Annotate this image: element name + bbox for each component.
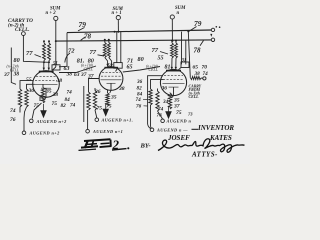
tube V2 plate — [104, 67, 118, 69]
svg-text:75: 75 — [97, 106, 103, 112]
label 79 right — [194, 19, 202, 28]
label 55 cell3 — [158, 56, 164, 62]
label 36 cell1 — [28, 88, 35, 94]
wire bus 79 — [67, 30, 211, 33]
svg-text:ATTYS-: ATTYS- — [191, 151, 218, 159]
wire leader 77 cell3 — [160, 52, 168, 55]
figure label FIG.2 — [79, 139, 112, 150]
svg-text:74: 74 — [67, 90, 73, 96]
terminal carry-to — [22, 32, 26, 36]
wire leader 79 left — [78, 28, 85, 31]
label CARRY FROM right — [189, 84, 202, 99]
wire carry cell2-3 — [123, 67, 160, 73]
wire bus79 drops cell2 — [116, 32, 118, 63]
svg-text:n + 2: n + 2 — [46, 11, 57, 16]
svg-text:79: 79 — [79, 20, 87, 29]
wire rowB left up — [23, 118, 25, 131]
wire tube V3 grid exit B — [151, 80, 164, 89]
svg-text:75: 75 — [34, 103, 40, 109]
svg-text:76: 76 — [136, 104, 142, 110]
tube V3 screen — [163, 82, 185, 84]
resistor 75 cell1 b — [41, 88, 44, 104]
resistor cell3 b — [156, 91, 159, 111]
resistor cell3 a — [149, 89, 152, 105]
svg-text:78: 78 — [84, 32, 92, 40]
resistor 77 cell2 — [103, 43, 106, 58]
wire bus 78 — [56, 40, 212, 41]
tube V1 plate lead arrows — [43, 68, 50, 71]
wire rowA3 up — [158, 111, 163, 119]
signature Smart Biggar — [158, 139, 245, 153]
label 35 cell2 — [110, 95, 117, 101]
svg-text:AUGEND n+2: AUGEND n+2 — [36, 119, 68, 124]
arrow ground cell3 — [165, 111, 172, 119]
resistor 77 cell3 — [171, 43, 174, 58]
crystal box 31 cell3 — [181, 62, 189, 68]
label 84 cell2 — [65, 97, 71, 103]
svg-text:82: 82 — [61, 103, 67, 109]
svg-text:79: 79 — [194, 19, 202, 28]
svg-text:36: 36 — [28, 88, 35, 94]
node CARRY TO (n-2)th CELL label — [8, 18, 33, 33]
node SUM n+1 label — [175, 6, 186, 16]
svg-text:JOSEF: JOSEF — [167, 134, 190, 142]
svg-text:AUGEND n+2: AUGEND n+2 — [29, 131, 61, 136]
wire bus 79 left drop — [66, 33, 68, 67]
wire carry-to down — [23, 36, 48, 63]
wire tube V1 bottom leads — [39, 97, 41, 102]
svg-text:76: 76 — [10, 117, 16, 123]
svg-text:36: 36 — [136, 79, 143, 85]
svg-text:n: n — [177, 11, 180, 16]
label 65 cell3 — [127, 64, 133, 70]
crystal box cell2 — [114, 63, 122, 69]
tube V1 screen — [35, 83, 58, 85]
svg-text:38: 38 — [66, 72, 73, 78]
svg-text:78: 78 — [194, 47, 202, 55]
svg-text:65: 65 — [127, 64, 133, 70]
svg-text:AUGEND n+1.: AUGEND n+1. — [101, 118, 134, 123]
label 80 cell3 — [138, 56, 144, 63]
label 72 — [68, 48, 75, 55]
svg-text:n + 1: n + 1 — [112, 11, 122, 16]
wire mid extra vertical — [83, 86, 85, 122]
wire tube V1 grid exit A — [20, 81, 34, 89]
svg-text:37: 37 — [173, 103, 180, 109]
label 79 left — [79, 20, 87, 29]
tube V2 grid2 — [101, 75, 121, 77]
wire plate leads cell1 — [43, 62, 45, 68]
svg-text:74: 74 — [70, 103, 76, 109]
label 80 cell1 — [14, 57, 20, 64]
svg-text:77: 77 — [26, 50, 33, 57]
label 77 cell3 — [152, 47, 159, 54]
svg-text:74: 74 — [136, 97, 142, 103]
svg-text:63: 63 — [74, 72, 80, 78]
label 75 cell3 — [176, 110, 182, 116]
tube V1 plate — [39, 71, 54, 73]
svg-text:77: 77 — [152, 47, 159, 54]
label 65 70 right — [193, 64, 208, 70]
wire rowB3 up — [148, 79, 152, 128]
wire bus79 drop cell3 — [181, 32, 183, 65]
resistor 70 horizontal — [191, 76, 202, 79]
wire carry cell1-2 — [59, 66, 96, 73]
terminal augend A3 — [161, 119, 165, 123]
wire tube V2 bottom leads — [94, 88, 96, 91]
label 75 cell1 a — [34, 103, 40, 109]
svg-text:CELL: CELL — [84, 67, 93, 71]
resistor 75 cell1 a — [25, 89, 28, 107]
label 51 cell2 — [107, 62, 113, 68]
svg-text:80: 80 — [14, 57, 20, 64]
svg-text:74: 74 — [203, 71, 209, 77]
label 38 cell2 — [118, 86, 125, 92]
svg-text:38: 38 — [118, 86, 125, 92]
label 37 cell2 — [87, 74, 94, 80]
label 75 cell1 b — [52, 101, 58, 107]
label 76 cell2 right — [157, 113, 163, 119]
svg-text:75: 75 — [52, 101, 58, 107]
wire leader 79 right — [189, 27, 197, 32]
continuation dots — [216, 26, 221, 28]
terminal augend A1 — [30, 119, 34, 123]
label column cell3 — [136, 79, 148, 110]
svg-text:74: 74 — [10, 108, 16, 114]
svg-text:51: 51 — [53, 61, 58, 66]
terminal augend B2 — [86, 129, 90, 133]
svg-text:55: 55 — [158, 56, 164, 62]
label 38 63 37 row — [66, 72, 87, 79]
svg-text:36: 36 — [161, 86, 168, 92]
tube V2 plate lead arrows — [106, 64, 112, 67]
wire leader 77 cell2 — [98, 55, 105, 56]
label 63 cell2 — [64, 66, 70, 72]
resistor cell2 b — [93, 91, 96, 111]
label 36 cell3 mid — [161, 86, 168, 92]
svg-text:38: 38 — [194, 71, 201, 77]
svg-text:70: 70 — [202, 64, 208, 70]
svg-text:CELL: CELL — [149, 68, 158, 72]
tube V1 envelope — [33, 71, 60, 98]
node SUM n+1 mid label — [112, 7, 124, 16]
wire sum n+1 mid down — [117, 20, 119, 32]
svg-text:CELL: CELL — [189, 95, 200, 99]
resistor pair cell1 b — [48, 43, 51, 61]
terminal sum n+2 — [54, 16, 58, 20]
label 76 cell1 — [10, 117, 16, 123]
terminal bus78 right — [211, 38, 214, 41]
label 35 cell1 — [45, 89, 52, 95]
svg-text:75: 75 — [106, 104, 112, 110]
resistor 74 cell1 — [18, 89, 21, 107]
label 74 cell2 left — [67, 90, 73, 96]
terminal augend B3 — [150, 128, 154, 132]
label 35 cell3 — [173, 98, 180, 104]
wire inventor dash — [192, 128, 199, 130]
tube V3 plate — [166, 70, 181, 72]
tube V1 cathode — [41, 87, 51, 89]
wire leader 78 right — [200, 41, 204, 46]
wire rowA2 up — [95, 110, 97, 118]
svg-text:INVENTOR: INVENTOR — [197, 124, 234, 132]
label 55 left — [26, 77, 32, 83]
wire bus78 drop cell3 — [185, 40, 187, 64]
terminal bias right — [203, 77, 206, 80]
terminal sum n+1 mid — [116, 16, 120, 20]
wire left edge vertical — [11, 48, 16, 85]
svg-text:35: 35 — [110, 95, 117, 101]
crystal box 51 cell1 — [52, 65, 60, 70]
resistor cell3 c — [168, 93, 171, 109]
label 37 left low — [3, 72, 19, 78]
resistor 77 cell1 — [43, 43, 46, 61]
node SUM n+2 label — [46, 7, 62, 16]
label 38 cell1 b — [56, 78, 63, 84]
svg-text:AUGEND n+1: AUGEND n+1 — [92, 129, 123, 134]
label 78 right — [194, 47, 202, 55]
svg-text:AUGEND n: AUGEND n — [166, 119, 192, 124]
tube V2 envelope — [99, 67, 123, 91]
arrow ground cell2 — [102, 109, 109, 117]
tube V1 grid1 — [36, 76, 56, 78]
svg-text:35: 35 — [45, 89, 52, 95]
label 78 left — [84, 32, 92, 40]
wire leader 72 — [65, 53, 70, 63]
tube V2 cathode — [107, 82, 116, 84]
label (n+1)th CELL right — [146, 65, 158, 73]
junction dots carry wire cell1 — [43, 61, 50, 63]
label 75 75 cell2 — [97, 104, 112, 112]
wire bus79drop to box cell1 — [59, 65, 67, 68]
svg-text:80: 80 — [138, 56, 144, 63]
resistor 80 cell3 — [175, 43, 178, 58]
tube V2 grid1 — [102, 72, 120, 74]
label 73 right edge — [188, 112, 193, 117]
tube V3 grid2 — [163, 79, 184, 81]
svg-text:37: 37 — [3, 72, 10, 78]
arrow small between buses — [210, 34, 212, 37]
svg-text:AUGEND n —: AUGEND n — — [156, 128, 188, 133]
label 34 cell3 — [162, 99, 169, 105]
junction dots buses — [43, 30, 189, 42]
label (n+1)th CELL mid — [81, 64, 93, 72]
terminal bus79 right — [211, 28, 214, 31]
svg-text:38: 38 — [13, 72, 20, 78]
tube V1 grid2 — [35, 80, 57, 82]
label 71 cell3 — [127, 58, 133, 65]
wire leader 78 left — [81, 37, 85, 40]
label 77 cell2 — [90, 49, 97, 56]
wire sum n+1 down — [171, 19, 173, 41]
svg-text:55: 55 — [26, 77, 32, 83]
svg-text:38: 38 — [56, 78, 63, 84]
label 77 cell1 — [26, 50, 33, 57]
wire box cell3 down — [178, 67, 181, 70]
svg-text:73: 73 — [188, 112, 193, 117]
wire sum n+2 down — [55, 21, 57, 68]
svg-text:37: 37 — [80, 72, 87, 78]
wire leader 77 cell1 — [35, 55, 42, 58]
resistor 80 cell2 — [107, 43, 110, 58]
tube V3 cathode — [169, 86, 179, 88]
terminal sum n+1 — [170, 15, 174, 19]
arrow ground cell1 — [40, 110, 47, 118]
terminal augend A2 — [95, 118, 99, 122]
tube V3 envelope — [160, 69, 186, 95]
label 37 cell3 — [173, 103, 180, 109]
svg-text:75: 75 — [176, 110, 182, 116]
resistor cell2 c — [106, 93, 109, 106]
wire rowB2 up — [87, 110, 89, 129]
wire tube V3 bottom leads — [157, 89, 159, 92]
label 81 80 cell2 — [77, 57, 94, 64]
wire plate leads cell2 — [105, 58, 108, 65]
resistor cell2 a — [87, 92, 90, 110]
svg-text:36: 36 — [94, 89, 101, 95]
label 38 cell1 — [52, 92, 59, 98]
label 74 cell2 right — [158, 107, 164, 113]
tube V3 grid1 — [164, 75, 183, 77]
tube V3 plate lead arrows — [171, 67, 177, 70]
label 82 74 cell2 — [61, 103, 76, 109]
svg-text:KATES: KATES — [209, 134, 232, 142]
wire sum lead into tube — [52, 67, 56, 71]
label 36 cell2 — [94, 89, 101, 95]
svg-text:65: 65 — [193, 64, 199, 70]
label 74 cell1 — [10, 108, 16, 114]
svg-text:77: 77 — [90, 49, 97, 56]
wire tube V1 grid exit B — [27, 84, 35, 89]
svg-text:BY-: BY- — [140, 143, 151, 150]
wire tube V3 grid exit A — [148, 76, 163, 79]
tube V2 screen — [101, 79, 122, 81]
wire tube V2 left side — [89, 79, 100, 93]
wire box31 drop — [188, 31, 190, 78]
label 38 74 right — [194, 71, 209, 77]
wire plate leads cell3 — [171, 58, 173, 68]
label 81 cell3 — [165, 65, 171, 71]
svg-text:38: 38 — [52, 92, 59, 98]
terminal augend B1 — [22, 131, 26, 135]
label (n+2)th CELL left — [7, 65, 20, 73]
svg-text:34: 34 — [162, 99, 169, 105]
